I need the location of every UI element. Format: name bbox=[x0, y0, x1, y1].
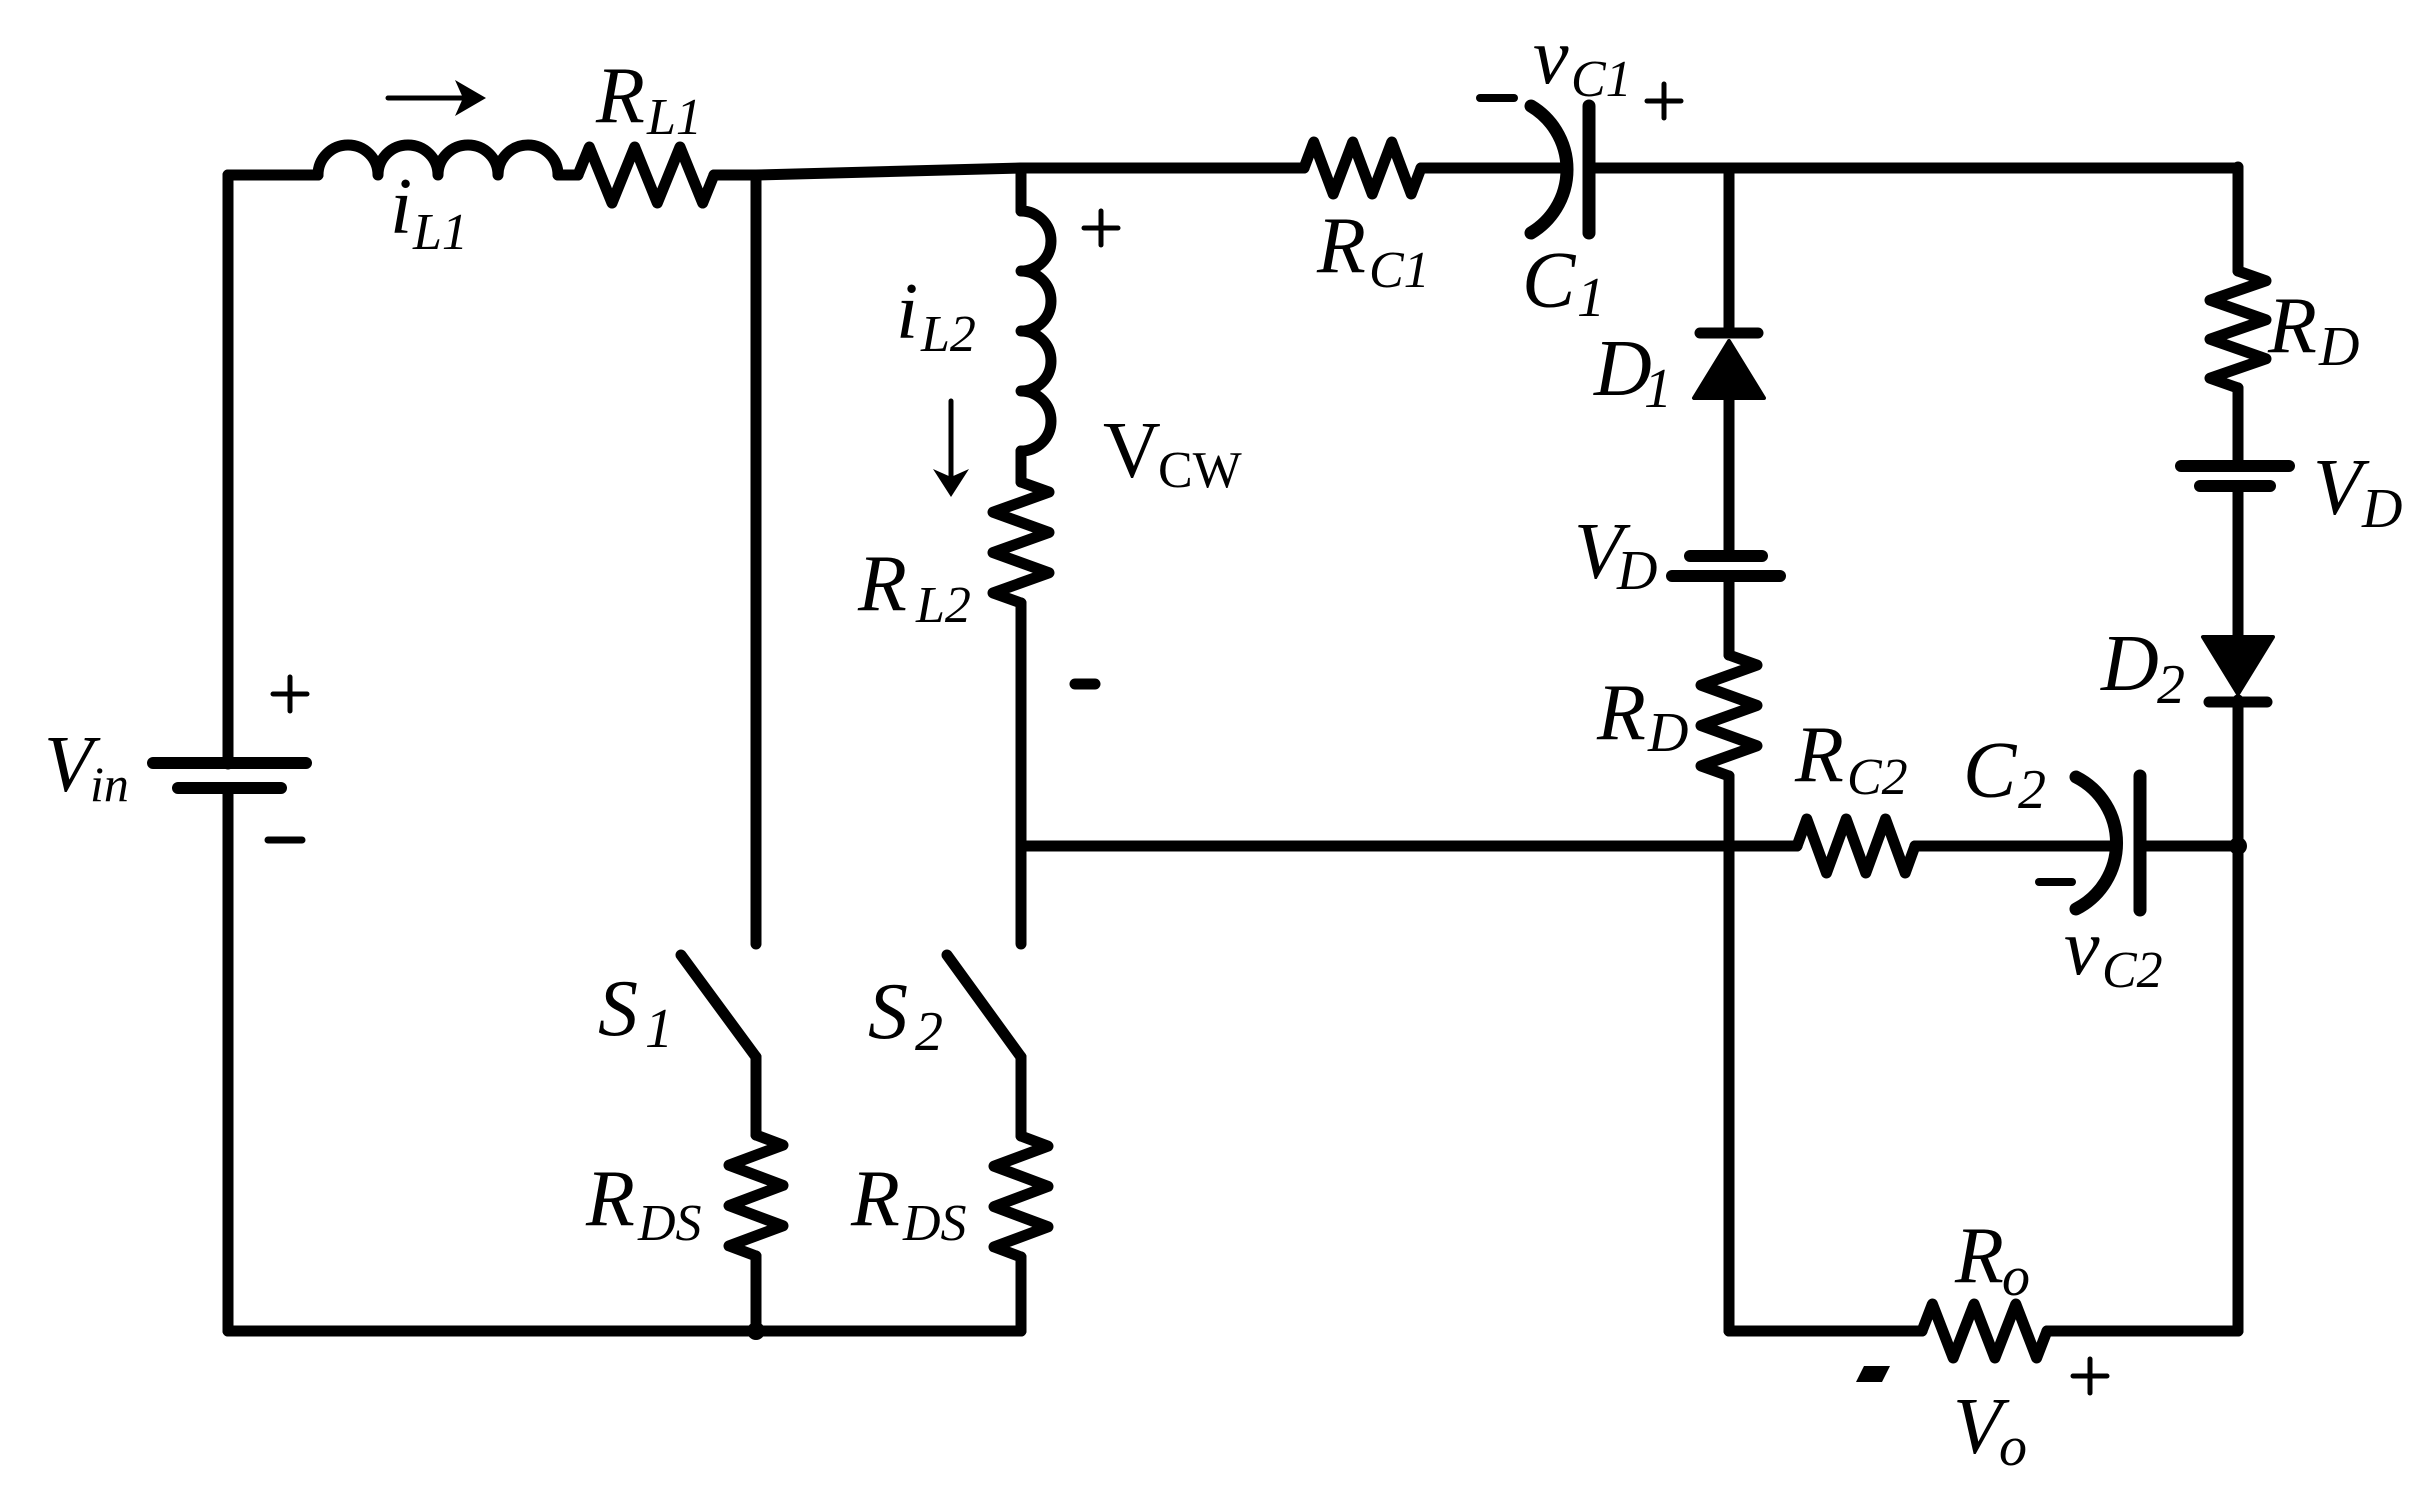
svg-text:o: o bbox=[1999, 1416, 2027, 1478]
svg-text:D: D bbox=[2318, 316, 2359, 378]
svg-text:C1: C1 bbox=[1571, 51, 1632, 108]
svg-text:R: R bbox=[1316, 202, 1366, 290]
svg-text:2: 2 bbox=[2157, 654, 2185, 716]
svg-text:DS: DS bbox=[637, 1195, 702, 1252]
svg-text:1: 1 bbox=[1644, 358, 1672, 420]
svg-text:1: 1 bbox=[645, 998, 673, 1060]
svg-text:R: R bbox=[585, 1155, 635, 1243]
svg-text:R: R bbox=[857, 540, 907, 628]
svg-text:C: C bbox=[1963, 727, 2018, 815]
svg-text:D: D bbox=[1616, 540, 1657, 602]
svg-text:o: o bbox=[2002, 1246, 2030, 1308]
svg-text:v: v bbox=[2064, 904, 2100, 992]
svg-text:L2: L2 bbox=[920, 306, 976, 363]
svg-text:2: 2 bbox=[915, 1001, 943, 1063]
svg-text:in: in bbox=[90, 756, 129, 812]
svg-text:S: S bbox=[598, 965, 638, 1053]
svg-text:DS: DS bbox=[902, 1195, 967, 1252]
svg-text:C2: C2 bbox=[2102, 942, 2163, 999]
svg-text:R: R bbox=[595, 52, 645, 140]
svg-text:D: D bbox=[2100, 620, 2159, 708]
svg-text:S: S bbox=[868, 968, 908, 1056]
svg-text:2: 2 bbox=[2018, 759, 2046, 821]
svg-text:v: v bbox=[1533, 13, 1569, 101]
svg-text:V: V bbox=[1103, 407, 1161, 495]
svg-text:R: R bbox=[2267, 282, 2317, 370]
svg-text:D: D bbox=[1593, 325, 1652, 413]
svg-text:C2: C2 bbox=[1847, 749, 1908, 806]
svg-text:D: D bbox=[1647, 702, 1688, 764]
svg-text:R: R bbox=[1596, 669, 1646, 757]
svg-text:C: C bbox=[1522, 237, 1577, 325]
svg-text:1: 1 bbox=[1577, 267, 1605, 329]
svg-text:CW: CW bbox=[1158, 442, 1242, 499]
svg-text:C1: C1 bbox=[1369, 242, 1430, 299]
svg-text:R: R bbox=[1954, 1212, 2004, 1300]
svg-text:i: i bbox=[390, 163, 412, 251]
svg-text:L2: L2 bbox=[915, 577, 971, 634]
svg-text:L1: L1 bbox=[646, 89, 702, 146]
svg-text:R: R bbox=[850, 1155, 900, 1243]
svg-text:L1: L1 bbox=[412, 204, 468, 261]
svg-text:D: D bbox=[2361, 478, 2402, 540]
svg-text:R: R bbox=[1794, 711, 1844, 799]
svg-text:i: i bbox=[896, 268, 918, 356]
